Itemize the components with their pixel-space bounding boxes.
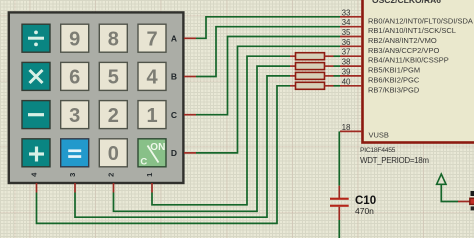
wire row B to pin 34	[196, 27, 340, 77]
pin 34 stub	[340, 26, 362, 28]
svg-text:3: 3	[68, 173, 77, 177]
svg-text:470n: 470n	[355, 206, 374, 216]
wire resistor R2 to pin 38	[334, 65, 341, 67]
wire col 4 to resistor R4	[37, 86, 291, 224]
svg-text:C: C	[171, 110, 177, 120]
svg-text:6: 6	[69, 67, 80, 89]
keypad button 1	[138, 101, 166, 129]
wire row D to pin 36	[196, 46, 340, 153]
keypad button 7	[138, 24, 166, 52]
svg-text:RB1/AN10/INT1/SCK/SCL: RB1/AN10/INT1/SCK/SCL	[368, 26, 456, 35]
svg-text:RB2/AN8/INT2/VMO: RB2/AN8/INT2/VMO	[368, 36, 437, 45]
resistor R4	[290, 82, 334, 89]
right edge component body	[470, 191, 474, 210]
pin 35 stub	[340, 36, 362, 38]
svg-text:RB5/KBI1/PGM: RB5/KBI1/PGM	[368, 66, 420, 75]
keypad button equals	[61, 139, 89, 167]
svg-text:RB3/AN9/CCP2/VPO: RB3/AN9/CCP2/VPO	[368, 46, 439, 55]
wire resistor R1 to pin 37	[334, 55, 341, 57]
keypad button plus	[22, 139, 50, 167]
keypad button 4	[138, 62, 166, 90]
pin 40 stub	[340, 85, 362, 87]
keypad pin stub row A	[184, 37, 196, 39]
svg-text:RB6/KBI2/PGC: RB6/KBI2/PGC	[368, 75, 420, 84]
keypad KP1 body	[9, 12, 184, 183]
pin 38 stub	[340, 65, 362, 67]
keypad button 8	[99, 24, 127, 52]
svg-text:40: 40	[342, 77, 351, 86]
svg-text:34: 34	[342, 18, 351, 27]
svg-text:36: 36	[342, 38, 351, 47]
wire pin 18 to capacitor C10	[338, 131, 340, 185]
svg-text:8: 8	[108, 29, 119, 51]
resistor R1	[290, 53, 334, 60]
wire col 3 to resistor R3	[75, 76, 290, 217]
keypad button 2	[99, 101, 127, 129]
svg-text:7: 7	[146, 29, 157, 51]
wire resistor R3 to pin 39	[334, 75, 341, 77]
svg-text:18: 18	[342, 123, 351, 132]
svg-text:D: D	[171, 148, 177, 158]
svg-text:4: 4	[146, 67, 158, 89]
keypad button divide	[22, 24, 50, 52]
svg-text:5: 5	[108, 67, 119, 89]
keypad pin stub row B	[184, 76, 196, 78]
wire power to right component	[441, 201, 459, 203]
keypad pin stub col 1	[151, 183, 153, 193]
keypad button C/ON	[138, 139, 166, 168]
svg-text:VUSB: VUSB	[369, 131, 389, 140]
svg-text:38: 38	[342, 58, 351, 67]
keypad button multiply	[22, 62, 50, 90]
keypad pin stub col 4	[36, 183, 38, 193]
svg-text:C: C	[140, 157, 147, 168]
wire capacitor C10 to bottom	[338, 220, 340, 238]
svg-text:1: 1	[146, 105, 157, 127]
svg-text:WDT_PERIOD=18m: WDT_PERIOD=18m	[360, 156, 429, 165]
svg-text:PIC18F4455: PIC18F4455	[360, 147, 396, 154]
svg-text:35: 35	[342, 28, 351, 37]
wire row A to pin 33	[196, 17, 340, 39]
keypad pin stub row D	[184, 152, 196, 154]
wire col 2 to resistor R2	[114, 66, 291, 211]
wire row C to pin 35	[196, 37, 340, 115]
svg-text:RB7/KBI3/PGD: RB7/KBI3/PGD	[368, 85, 420, 94]
svg-text:B: B	[171, 72, 177, 82]
resistor R2	[290, 63, 334, 70]
svg-text:3: 3	[69, 105, 80, 127]
capacitor C10	[330, 186, 349, 220]
keypad button 6	[61, 62, 89, 90]
wire resistor R4 to pin 40	[334, 85, 341, 87]
keypad button 3	[61, 101, 89, 129]
right component lead	[458, 201, 470, 203]
svg-text:OSC2/CLKO/RA6: OSC2/CLKO/RA6	[372, 0, 441, 5]
svg-text:RB4/AN11/KBI0/CSSPP: RB4/AN11/KBI0/CSSPP	[368, 56, 449, 65]
svg-text:1: 1	[145, 173, 154, 177]
svg-text:RB0/AN12/INT0/FLT0/SDI/SDA: RB0/AN12/INT0/FLT0/SDI/SDA	[368, 16, 473, 25]
keypad pin stub row C	[184, 114, 196, 116]
pin 36 stub	[340, 45, 362, 47]
svg-text:2: 2	[107, 173, 116, 177]
keypad button 5	[99, 62, 127, 90]
svg-text:0: 0	[108, 143, 119, 165]
svg-text:37: 37	[342, 48, 351, 57]
keypad button 9	[61, 24, 89, 52]
keypad button 0	[99, 139, 127, 167]
svg-text:2: 2	[108, 105, 119, 127]
pin 18 stub	[340, 130, 362, 132]
svg-text:33: 33	[342, 8, 351, 17]
svg-text:39: 39	[342, 67, 351, 76]
pin 37 stub	[340, 55, 362, 57]
svg-text:ON: ON	[150, 142, 165, 153]
pin 39 stub	[340, 75, 362, 77]
keypad button minus	[22, 101, 50, 129]
svg-text:A: A	[171, 34, 177, 44]
keypad pin stub col 3	[74, 183, 76, 193]
resistor R3	[290, 72, 334, 79]
PIC18F4455 U1 body	[363, 0, 474, 143]
wire col 1 to resistor R1	[152, 56, 290, 205]
power symbol arrow	[437, 174, 446, 202]
svg-text:9: 9	[69, 29, 80, 51]
pin 33 stub	[340, 16, 362, 18]
keypad pin stub col 2	[113, 183, 115, 193]
